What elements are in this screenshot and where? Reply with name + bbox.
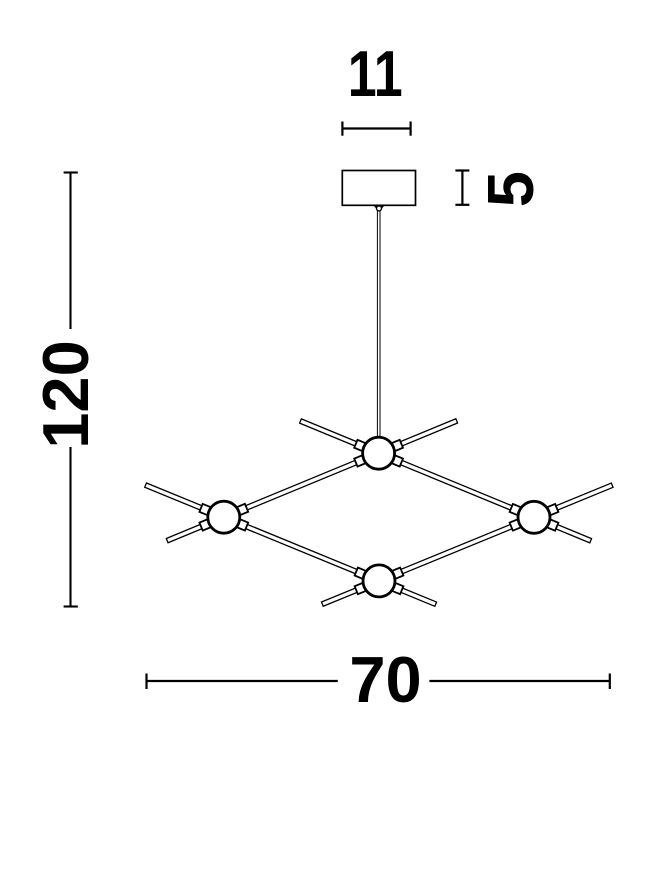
dim line 11 with end ticks (342, 122, 410, 136)
svg-text:120: 120 (29, 340, 102, 448)
svg-text:5: 5 (474, 171, 547, 207)
socket T lower-left (354, 454, 368, 466)
socket B lower-left (355, 582, 369, 594)
svg-text:11: 11 (348, 39, 403, 111)
lamp sphere left (208, 501, 240, 533)
socket R lower-left (510, 518, 524, 530)
canopy box (342, 171, 415, 206)
socket L upper-left (199, 504, 213, 516)
lamp sphere bottom (363, 565, 395, 597)
lamp sphere right (518, 501, 550, 533)
socket R upper-right (544, 504, 558, 516)
socket B lower-right (389, 582, 403, 594)
dim line 70 with end ticks (fixture width) (147, 674, 610, 690)
rod top-left (T to L) (166, 419, 457, 543)
suspension cable (377, 209, 380, 453)
socket T upper-right (389, 440, 403, 452)
rod top-right (T to R) (300, 419, 592, 543)
cable ceiling connector (373, 205, 385, 209)
socket B upper-right (389, 568, 403, 580)
socket T lower-right (389, 454, 403, 466)
rod bottom-right (R to B) (321, 483, 613, 606)
socket L lower-left (199, 518, 213, 530)
socket L lower-right (234, 518, 248, 530)
dim line 5 with end ticks (canopy height) (455, 171, 469, 205)
socket B upper-left (355, 568, 369, 580)
svg-text:70: 70 (349, 643, 421, 716)
socket L upper-right (234, 504, 248, 516)
socket T upper-left (354, 440, 368, 452)
socket R upper-left (510, 504, 524, 516)
lamp sphere top (363, 437, 395, 469)
rod bottom-left (L to B) (145, 483, 437, 606)
dim line 120 with end ticks (overall height) (64, 173, 78, 607)
socket R lower-right (544, 518, 558, 530)
